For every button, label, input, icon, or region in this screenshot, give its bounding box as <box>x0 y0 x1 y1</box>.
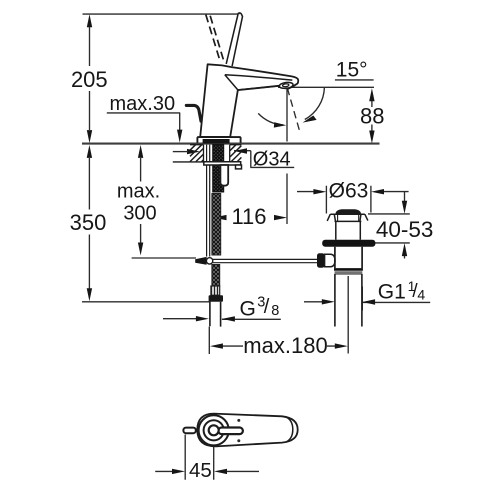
arrow G114 right <box>362 299 375 304</box>
deck cross-section hatch right <box>230 145 242 162</box>
handle screw dot top <box>237 419 240 422</box>
arrow max180 left <box>210 343 223 348</box>
svg-text:max.: max. <box>117 181 160 203</box>
drain body <box>335 247 362 268</box>
dimension max300 line <box>140 158 142 243</box>
svg-text:G: G <box>240 298 256 321</box>
arrow 88 top <box>369 88 374 101</box>
arrow dia34 right <box>234 148 247 153</box>
spout outlet aerator <box>279 82 293 89</box>
arrow 350 bottom <box>87 288 92 301</box>
svg-text:350: 350 <box>70 210 107 235</box>
arrow dia63 left <box>313 189 326 194</box>
drain rod port <box>325 254 335 267</box>
svg-text:300: 300 <box>123 203 156 225</box>
45 extension lines <box>185 435 214 480</box>
svg-text:G1: G1 <box>378 280 406 303</box>
dimension 88 line <box>371 101 373 131</box>
svg-text:88: 88 <box>360 103 384 128</box>
svg-text:8: 8 <box>271 303 279 319</box>
arrow max180 right <box>335 343 348 348</box>
arrow max300 bottom <box>138 243 143 256</box>
spout angle dashed line <box>287 88 300 132</box>
drain plug cap <box>336 209 362 213</box>
dia34 left arrow tail <box>173 151 188 153</box>
handle boss middle circle <box>204 420 224 440</box>
drain cup rim <box>327 214 368 221</box>
faucet body <box>200 64 298 137</box>
drain cup inner lines <box>338 215 359 221</box>
deck line <box>82 143 380 145</box>
dia63 extension ticks <box>326 186 371 214</box>
dimension 205 line <box>89 27 91 130</box>
drain gasket <box>322 240 375 247</box>
arrow 45 right <box>214 469 227 474</box>
top extension line <box>83 13 240 15</box>
arrow dia34 left <box>187 149 200 154</box>
svg-text:205: 205 <box>71 67 108 92</box>
svg-text:Ø63: Ø63 <box>329 179 369 202</box>
dimension 40-53 line <box>404 192 406 259</box>
dimension 45 lines <box>155 470 259 472</box>
svg-text:max.180: max.180 <box>243 333 327 358</box>
svg-text:40-53: 40-53 <box>376 217 434 242</box>
arrow arc left <box>274 122 287 127</box>
svg-text:Ø34: Ø34 <box>253 149 291 171</box>
svg-text:max.30: max.30 <box>110 93 176 115</box>
arrow 205 top <box>87 14 92 27</box>
handle screw dot bottom <box>237 439 240 442</box>
washer right tab <box>236 165 242 169</box>
handle end inner line <box>286 417 293 442</box>
hose knurled connector <box>211 286 220 295</box>
pop-up rod pivot ball <box>206 258 212 264</box>
arrow 40-53 bottom <box>402 243 407 256</box>
supply hose upper <box>212 194 221 256</box>
pop-up horizontal rod <box>213 259 317 262</box>
dia34 leader <box>234 151 294 168</box>
G114 leader <box>304 287 430 311</box>
G38 hex nut <box>209 295 223 302</box>
handle boss inner circle <box>209 425 219 435</box>
faucet joystick lever dashed alternate position <box>206 15 224 61</box>
G38 threaded tube <box>210 302 221 327</box>
handle side paddle <box>183 428 195 434</box>
pop-up rod vertical <box>207 145 210 257</box>
G38 leader <box>163 318 281 321</box>
dia63 leader lines <box>297 191 409 193</box>
arrow 40-53 top <box>402 201 407 214</box>
svg-text:4: 4 <box>417 287 425 303</box>
drain rod knob <box>317 253 325 267</box>
arrow arc right <box>303 116 317 123</box>
svg-text:116: 116 <box>231 204 266 229</box>
pop-up rod pivot cone <box>195 257 206 265</box>
15deg underline <box>335 79 374 81</box>
drain cup neck <box>335 221 362 239</box>
svg-text:45: 45 <box>189 459 212 482</box>
dimension 350 line <box>88 158 90 289</box>
arrow G38 left <box>196 316 209 321</box>
arrow 116 right <box>274 215 287 220</box>
faucet escutcheon dark band <box>203 139 230 143</box>
mounting washer <box>204 162 241 165</box>
350 bottom extension line <box>82 301 211 303</box>
arrow 116 left <box>214 215 227 220</box>
dimension 116 ticks <box>212 212 214 224</box>
arrow dia63 right <box>371 189 384 194</box>
faucet side lever hook <box>186 105 201 121</box>
arrow max300 top <box>138 145 143 158</box>
dimension max180 line <box>223 345 336 347</box>
threaded shank <box>213 144 224 192</box>
max300 end extension line <box>132 257 196 259</box>
handle joystick stub <box>218 428 243 435</box>
supply hose lower <box>212 265 220 287</box>
arrow G114 left <box>322 299 335 304</box>
handle outline (top view) <box>197 414 297 447</box>
faucet joystick lever <box>226 13 242 66</box>
faucet base plate <box>197 137 241 143</box>
40-53 extension lines <box>368 214 410 243</box>
max30 underline and leader <box>107 113 180 131</box>
svg-text:/: / <box>264 296 270 318</box>
drain tailpiece <box>335 274 362 327</box>
mounting nut <box>220 165 228 186</box>
deck cross-section hatch left <box>190 145 203 162</box>
outlet vertical extension line <box>286 89 288 225</box>
arrow G38 right <box>222 316 235 321</box>
deck underside line <box>173 161 204 163</box>
outlet horizontal reference line <box>278 86 374 88</box>
arrow 45 left <box>172 469 185 474</box>
svg-text:15°: 15° <box>336 59 368 82</box>
deck section boundary lines <box>190 145 242 162</box>
angle arc left <box>258 113 283 125</box>
arrow 88 bottom <box>369 131 374 144</box>
max180 extension lines <box>209 276 348 354</box>
arrow 205 bottom <box>87 130 92 143</box>
arrow max30 <box>177 130 182 143</box>
angle arc right <box>305 87 325 119</box>
faucet spout crease lines <box>225 75 292 90</box>
handle boss outer circle <box>199 415 229 445</box>
arrow 350 top <box>87 145 92 158</box>
drain body bottom flange <box>334 268 363 271</box>
